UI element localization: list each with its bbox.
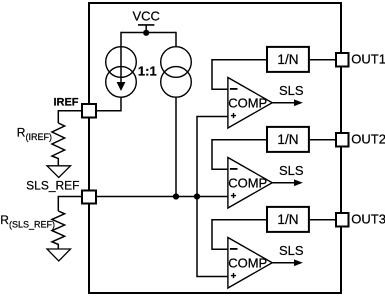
svg-text:OUT1: OUT1: [351, 52, 385, 67]
VCC power bar symbol: [138, 24, 154, 26]
current source I1 upper circle: [106, 47, 137, 78]
wire U2 output: [272, 182, 295, 184]
U1 minus input symbol: [230, 88, 238, 90]
op-amp U1 comparator triangle: [228, 78, 272, 129]
U2 minus input symbol: [230, 168, 238, 170]
svg-text:SLS_REF: SLS_REF: [26, 179, 79, 193]
pad OUT3: [336, 213, 349, 227]
wire feedback 1/N to comparator 3 minus input: [212, 220, 266, 250]
wire right mirror branch top: [175, 32, 177, 47]
divider block 1/N channel 2: [267, 127, 309, 152]
svg-text:OUT3: OUT3: [351, 212, 385, 227]
wire U1 output: [272, 102, 295, 104]
arrowhead current direction I1: [117, 82, 126, 91]
svg-text:1/N: 1/N: [277, 212, 298, 227]
svg-text:IREF: IREF: [53, 96, 78, 108]
ground symbol below R(SLS_REF): [47, 249, 71, 261]
wire 1/N to OUT3 pad: [310, 219, 335, 221]
current source I2 lower circle: [161, 67, 192, 98]
pad SLS_REF: [82, 191, 96, 204]
U2 plus input symbol: [231, 195, 236, 197]
svg-text:1:1: 1:1: [138, 63, 157, 78]
svg-text:1/N: 1/N: [277, 132, 298, 147]
divider block 1/N channel 1: [267, 47, 309, 72]
ground symbol below R(IREF): [47, 166, 71, 178]
IC boundary box: [89, 3, 341, 293]
wire 1/N to OUT1 pad: [310, 59, 335, 61]
op-amp U2 comparator triangle: [228, 158, 272, 209]
svg-text:COMP: COMP: [228, 176, 267, 191]
svg-text:COMP: COMP: [228, 96, 267, 111]
current source I2 upper circle: [161, 47, 192, 78]
junction dot I2 to SLS_REF net: [173, 193, 179, 199]
U1 plus input symbol: [231, 115, 236, 117]
wire VCC rail: [121, 32, 176, 34]
wire 1/N to OUT2 pad: [310, 139, 335, 141]
divider block 1/N channel 3: [267, 207, 309, 232]
wire SLS_REF branch to comparator 1 and comparator 3 plus inputs: [197, 117, 228, 277]
wire I1 output to IREF pad: [97, 97, 121, 111]
current source I1 lower circle: [106, 67, 137, 98]
wire I2 output down to SLS_REF net: [175, 97, 177, 196]
arrowhead SLS output 2: [294, 179, 303, 186]
pad OUT2: [336, 133, 349, 147]
svg-text:SLS: SLS: [279, 83, 304, 98]
arrowhead SLS output 3: [294, 259, 303, 266]
pad OUT1: [336, 53, 349, 67]
wire VCC stub: [145, 25, 147, 33]
U3 minus input symbol: [230, 248, 238, 250]
wire left mirror branch with arrow stem: [120, 32, 122, 84]
junction dot VCC rail: [143, 30, 149, 36]
wire feedback 1/N to comparator 1 minus input: [212, 60, 266, 89]
resistor R(SLS_REF): [52, 211, 65, 249]
svg-text:VCC: VCC: [132, 8, 159, 23]
pad IREF: [82, 104, 96, 118]
U3 plus input symbol: [231, 275, 236, 277]
svg-text:1/N: 1/N: [277, 52, 298, 67]
svg-text:OUT2: OUT2: [351, 132, 385, 147]
wire SLS_REF net horizontal: [97, 196, 228, 198]
wire U3 output: [272, 262, 295, 264]
arrowhead SLS output 1: [294, 99, 303, 106]
svg-text:SLS: SLS: [279, 243, 304, 258]
svg-text:SLS: SLS: [279, 163, 304, 178]
wire feedback 1/N to comparator 2 minus input: [212, 140, 266, 170]
resistor R(IREF): [52, 123, 65, 166]
op-amp U3 comparator triangle: [228, 238, 272, 289]
junction dot SLS_REF branch: [194, 193, 200, 199]
wire SLS_REF pad to R(SLS_REF): [58, 197, 81, 212]
wire IREF pad to R(IREF): [58, 111, 81, 123]
svg-text:COMP: COMP: [228, 256, 267, 271]
